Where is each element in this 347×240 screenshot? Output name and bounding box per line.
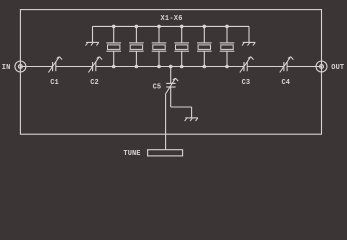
svg-text:C5: C5	[153, 84, 162, 92]
svg-text:C1: C1	[50, 79, 59, 87]
svg-text:OUT: OUT	[331, 64, 344, 72]
svg-text:C3: C3	[242, 79, 251, 87]
svg-text:C4: C4	[281, 79, 290, 87]
svg-text:TUNE: TUNE	[123, 150, 140, 158]
svg-text:C2: C2	[90, 79, 99, 87]
svg-text:X1-X6: X1-X6	[160, 15, 182, 23]
svg-text:IN: IN	[2, 64, 11, 72]
